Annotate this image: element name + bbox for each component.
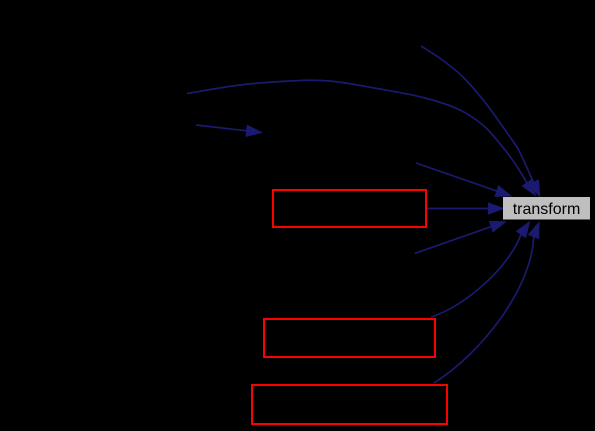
svg-text:transform: transform bbox=[513, 201, 581, 218]
